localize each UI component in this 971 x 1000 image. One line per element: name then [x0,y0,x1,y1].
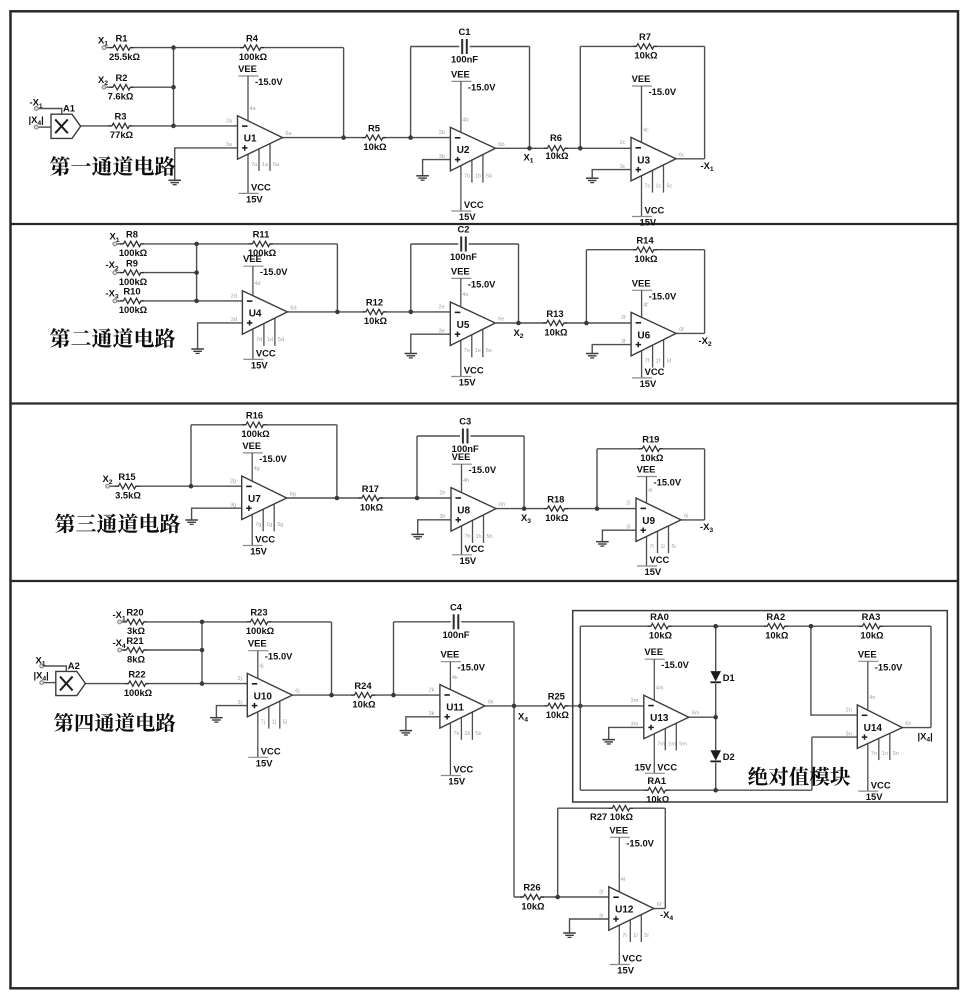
resistor RA1 [645,775,670,805]
junction [200,681,205,686]
band divider 3 [11,580,958,582]
svg-text:6a: 6a [286,131,293,137]
svg-text:7m: 7m [657,741,665,747]
terminal -X2 [113,271,117,275]
resistor R26 [520,882,545,912]
wire U5 non-inverting to ground [411,334,451,353]
wire RA3 row [811,625,931,627]
svg-text:15V: 15V [640,378,657,389]
wire RA3 right vertical [930,626,932,727]
svg-text:U1: U1 [244,134,257,145]
svg-text:15V: 15V [459,211,476,222]
svg-text:VCC: VCC [645,366,665,377]
junction [522,506,527,511]
svg-text:1n: 1n [882,751,888,757]
svg-text:1m: 1m [668,741,676,747]
wire X2-R2 [106,86,174,88]
ground U2 [416,176,429,180]
svg-text:C4: C4 [450,601,463,612]
wire U6 non-inverting to ground [592,345,631,354]
junction [335,496,340,501]
svg-text:15V: 15V [617,965,634,976]
title 第四通道电路 [54,713,176,732]
svg-text:VCC: VCC [645,205,665,216]
svg-text:3a: 3a [226,142,233,148]
svg-text:VCC: VCC [622,953,642,964]
multiplier A1 [51,103,81,139]
resistor R18 [544,493,569,523]
wire R16 top row [191,424,337,426]
wire C1 right tap [529,47,531,149]
svg-text:5l: 5l [644,933,648,939]
svg-text:R27 10kΩ: R27 10kΩ [590,811,633,822]
svg-text:2i: 2i [626,501,630,507]
ground U7 [185,520,198,524]
resistor R9 [119,257,148,287]
junction [194,299,199,304]
svg-text:3i: 3i [626,525,630,531]
svg-text:VEE: VEE [632,277,651,288]
svg-text:2m: 2m [631,698,639,704]
svg-text:VCC: VCC [256,348,276,359]
op-amp U14 [846,648,912,802]
svg-text:-15.0V: -15.0V [626,837,654,848]
svg-text:U2: U2 [457,145,470,156]
junction [200,620,205,625]
multiplier A2 [56,660,86,696]
title 第一通道电路 [50,156,175,176]
wire RA0 row [580,625,715,627]
svg-text:-15.0V: -15.0V [468,278,496,289]
svg-text:U10: U10 [254,691,273,702]
ground U12 [563,933,576,937]
svg-text:D1: D1 [723,672,735,683]
svg-text:R19: R19 [642,434,659,445]
svg-text:U12: U12 [615,905,634,916]
svg-text:3.5kΩ: 3.5kΩ [115,490,141,501]
wire R14 right vertical [704,250,706,334]
terminal -X3 [113,299,117,303]
svg-text:100kΩ: 100kΩ [239,51,268,62]
wire U13 output [689,716,716,718]
svg-text:U13: U13 [650,713,669,724]
wire X1 into A2 [44,666,66,671]
svg-text:VCC: VCC [650,554,670,565]
svg-text:4g: 4g [254,466,260,472]
resistor R11 [248,229,277,259]
svg-text:2g: 2g [230,479,236,485]
svg-text:R2: R2 [116,72,128,83]
resistor R16 [241,410,270,440]
svg-text:7f: 7f [645,359,650,365]
svg-text:3n: 3n [846,731,852,737]
svg-text:RA0: RA0 [650,611,669,622]
svg-text:1f: 1f [656,359,661,365]
wire U12 non-inverting to ground [570,919,609,933]
capacitor C1 [451,26,478,65]
svg-text:7j: 7j [261,720,265,726]
wire U2 output row X1 node [495,147,631,149]
svg-text:100kΩ: 100kΩ [241,428,270,439]
op-amp U10 [238,638,300,769]
svg-text:3e: 3e [439,329,445,335]
wire X2-R15 to U7 inverting [110,485,242,487]
svg-text:-15.0V: -15.0V [649,86,677,97]
svg-text:-15.0V: -15.0V [661,659,689,670]
svg-text:R11: R11 [253,229,270,240]
ground U13 [602,740,615,744]
svg-text:1g: 1g [266,522,272,528]
wire band4 summing vertical [201,622,203,684]
resistor R12 [363,297,388,327]
svg-text:VEE: VEE [238,63,257,74]
svg-text:R6: R6 [550,132,562,143]
svg-text:5i: 5i [672,544,676,550]
svg-text:8kΩ: 8kΩ [127,653,145,664]
wire C2 right tap [518,244,520,323]
svg-text:D2: D2 [723,751,735,762]
svg-text:5n: 5n [893,751,899,757]
wire U9 non-inverting to ground [602,530,636,542]
svg-text:4b: 4b [462,118,468,124]
svg-text:-15.0V: -15.0V [654,477,682,488]
svg-text:R20: R20 [126,607,143,618]
wire diode branch vertical [715,626,717,790]
svg-text:VCC: VCC [871,779,891,790]
wire C1 left tap [410,47,412,138]
wire R14 top row [586,249,704,251]
wire U8 non-inverting to ground [418,520,451,535]
wire U4 output row [287,311,450,313]
wire R19 right vertical [704,449,706,520]
wire A1 output to U1 inverting input [79,125,237,127]
junction [713,715,718,720]
resistor R20 [123,607,147,637]
svg-text:U8: U8 [457,506,470,517]
svg-text:15V: 15V [246,193,263,204]
svg-text:4j: 4j [259,664,263,670]
svg-text:VEE: VEE [248,638,267,649]
band divider 2 [11,402,958,404]
junction [809,624,814,629]
svg-text:15V: 15V [640,217,657,228]
svg-text:10kΩ: 10kΩ [649,630,673,641]
wire R14 left vertical [585,250,587,323]
svg-text:4n: 4n [869,695,875,701]
resistor R2 [108,72,134,102]
svg-text:-15.0V: -15.0V [469,464,497,475]
wire U1 output row [283,137,451,139]
svg-text:10kΩ: 10kΩ [646,794,670,805]
svg-text:6m: 6m [692,711,700,717]
svg-text:6k: 6k [488,699,494,705]
svg-text:5f: 5f [667,359,672,365]
wire R7 top row [580,45,704,47]
wire U10 output row [292,694,440,696]
svg-text:R5: R5 [368,122,380,133]
svg-text:5m: 5m [679,741,687,747]
svg-text:U4: U4 [249,309,262,320]
wire -X2-R9 [117,272,197,274]
wire -X4-R21 [122,649,202,651]
svg-text:R13: R13 [546,308,563,319]
svg-text:7a: 7a [251,162,258,168]
svg-text:5a: 5a [273,162,280,168]
svg-text:U3: U3 [637,155,650,166]
junction [555,895,560,900]
svg-text:5e: 5e [486,348,492,354]
resistor R5 [362,122,387,152]
svg-text:7.6kΩ: 7.6kΩ [108,91,134,102]
absolute value module box [573,611,948,802]
svg-text:R12: R12 [366,297,383,308]
resistor R1 [109,32,140,62]
wire RA2 row [716,625,811,627]
wire R16 left vertical [190,425,192,486]
wire R7 left vertical [579,46,581,148]
svg-text:RA1: RA1 [647,775,666,786]
wire C2 top row [411,243,519,245]
svg-text:VEE: VEE [451,68,470,79]
op-amp U7 [230,440,296,557]
op-amp U11 [429,649,494,787]
svg-text:3j: 3j [238,700,242,706]
svg-text:25.5kΩ: 25.5kΩ [109,51,140,62]
svg-text:1j: 1j [272,720,276,726]
wire C3 top row [417,435,524,437]
junction [415,496,420,501]
svg-text:RA2: RA2 [766,611,785,622]
svg-text:5k: 5k [475,731,481,737]
svg-text:2c: 2c [620,140,626,146]
svg-text:R8: R8 [126,229,138,240]
wire U14 output [902,727,931,729]
op-amp U9 [626,464,688,578]
wire R7 right vertical [704,46,706,158]
svg-text:100nF: 100nF [451,54,478,65]
svg-text:15V: 15V [459,377,476,388]
svg-text:15V: 15V [256,757,273,768]
svg-text:5d: 5d [278,337,284,343]
svg-text:R14: R14 [636,235,654,246]
svg-text:7b: 7b [464,174,470,180]
wire |X4| into A1 [38,126,51,128]
ground U9 [596,542,609,546]
resistor R15 [115,471,141,501]
svg-text:6i: 6i [684,513,688,519]
svg-text:U14: U14 [864,723,883,734]
wire -X1-R20-R23 row [122,621,332,623]
svg-text:A1: A1 [63,103,75,114]
wire summing junction vertical [173,48,175,126]
ground U11 [400,731,413,735]
svg-text:VCC: VCC [464,365,484,376]
svg-text:VEE: VEE [609,824,628,835]
junction [578,146,583,151]
svg-text:R22: R22 [128,668,145,679]
resistor RA2 [764,611,789,641]
resistor R17 [358,483,383,513]
resistor RA0 [648,611,673,641]
svg-text:R25: R25 [548,691,565,702]
svg-text:10kΩ: 10kΩ [544,326,568,337]
wire module left vertical [579,626,581,790]
wire X1-R8-R11 row [117,243,337,245]
terminal |X4| band4 [40,681,44,685]
junction [335,310,340,315]
ground U3 [586,178,599,182]
junction [200,648,205,653]
svg-text:77kΩ: 77kΩ [110,129,134,140]
wire U2 non-inverting to ground [423,160,451,176]
op-amp U4 [231,253,297,370]
svg-text:15V: 15V [645,566,662,577]
svg-text:7l: 7l [622,933,626,939]
svg-text:6b: 6b [498,142,504,148]
wire R19 top row [597,448,705,450]
svg-text:-15.0V: -15.0V [259,453,287,464]
svg-text:3b: 3b [439,154,445,160]
svg-text:7h: 7h [465,534,471,540]
terminal X2 band3 [106,484,110,488]
svg-text:6n: 6n [905,721,911,727]
svg-text:2b: 2b [439,130,445,136]
terminal |X4| [34,125,38,129]
svg-text:U7: U7 [248,494,261,505]
svg-text:100kΩ: 100kΩ [124,687,153,698]
wire U10 non-inverting to ground [216,706,247,718]
svg-text:3k: 3k [429,711,435,717]
wire RA1 to U14 non-inverting vertical [811,737,813,790]
junction [584,321,589,326]
wire C4 top row [394,621,515,623]
svg-text:VEE: VEE [858,648,877,659]
svg-text:100nF: 100nF [442,629,469,640]
svg-text:C1: C1 [459,26,471,37]
svg-text:1d: 1d [267,337,273,343]
svg-text:2d: 2d [231,293,237,299]
svg-text:2a: 2a [226,118,233,124]
wire U11 output row X4 node to U13 [485,705,644,707]
wire U3 non-inverting to ground [592,170,631,179]
svg-text:R16: R16 [246,410,263,421]
resistor R8 [119,229,148,259]
wire A2 output R22 to U10 inverting [86,683,248,685]
wire U9 output [681,519,705,521]
junction [408,135,413,140]
svg-text:7n: 7n [871,751,877,757]
svg-text:1a: 1a [262,162,269,168]
wire U7 non-inverting to ground [192,508,242,520]
band divider 1 [11,223,958,225]
svg-text:10kΩ: 10kΩ [634,50,658,61]
wire R4 right vertical [343,48,345,138]
svg-text:4d: 4d [254,281,260,287]
wire U5 output row X2 node [496,322,631,324]
svg-text:R23: R23 [250,607,267,618]
wire C4 left tap [393,622,395,695]
wire -X1 into A1 [38,109,62,116]
resistor R25 [544,691,569,721]
wire R16 right vertical [336,425,338,498]
svg-text:1k: 1k [464,731,470,737]
svg-text:10kΩ: 10kΩ [352,698,376,709]
wire R23 right vertical [331,622,333,695]
junction [171,45,176,50]
junction [341,135,346,140]
svg-text:VCC: VCC [255,534,275,545]
svg-text:7k: 7k [453,731,459,737]
wire U6 output [676,332,705,334]
wire U8 output row X3 node [496,508,636,510]
svg-text:-15.0V: -15.0V [457,662,485,673]
svg-text:10kΩ: 10kΩ [640,452,664,463]
op-amp U8 [439,451,505,566]
terminal -X1 band4 [118,620,122,624]
svg-text:U9: U9 [642,516,655,527]
terminal X1 band4 [40,664,44,668]
svg-text:6l: 6l [657,902,661,908]
capacitor C3 [452,416,479,455]
wire R27 left vertical [557,808,559,897]
op-amp U12 [599,824,661,975]
svg-text:10kΩ: 10kΩ [360,501,384,512]
svg-text:3f: 3f [621,339,626,345]
resistor R24 [351,680,376,710]
svg-text:15V: 15V [250,546,267,557]
wire R11 right vertical [336,244,338,312]
svg-text:4m: 4m [656,685,664,691]
junction [194,242,199,247]
junction [516,321,521,326]
svg-text:2j: 2j [238,676,242,682]
svg-text:6g: 6g [290,492,296,498]
svg-text:VEE: VEE [632,73,651,84]
wire X1-R1-R4 top row [106,47,344,49]
wire U4 non-inverting to ground [198,323,243,349]
svg-text:15V: 15V [448,776,465,787]
svg-text:VCC: VCC [657,762,677,773]
svg-text:-15.0V: -15.0V [468,81,496,92]
svg-text:R1: R1 [116,32,128,43]
junction [713,624,718,629]
wire X4 to R26 to U12 inverting [514,896,609,898]
ground U10 [210,718,223,722]
wire |X4| into A2 [44,682,56,684]
svg-text:R7: R7 [639,31,651,42]
svg-text:3c: 3c [620,164,626,170]
svg-text:15V: 15V [866,791,883,802]
svg-text:R17: R17 [362,483,379,494]
svg-text:1b: 1b [475,174,481,180]
svg-text:3h: 3h [439,514,445,520]
svg-text:C3: C3 [459,416,471,427]
svg-text:R9: R9 [126,257,138,268]
wire U1 non-inverting to ground [175,148,238,180]
svg-text:2l: 2l [599,890,603,896]
svg-text:100kΩ: 100kΩ [119,304,148,315]
resistor R19 [639,434,664,464]
svg-text:6j: 6j [295,689,299,695]
svg-text:15V: 15V [251,359,268,370]
svg-text:10kΩ: 10kΩ [521,901,545,912]
junction [409,310,414,315]
svg-text:-15.0V: -15.0V [649,290,677,301]
svg-text:VEE: VEE [242,440,261,451]
svg-text:4f: 4f [643,303,648,309]
svg-text:VEE: VEE [644,646,663,657]
resistor R23 [246,607,275,637]
